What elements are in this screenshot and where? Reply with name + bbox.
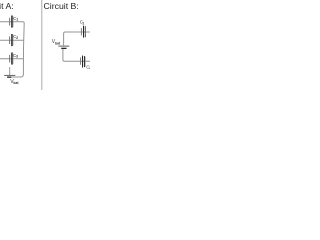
capacitor C1 thin plate: [9, 18, 11, 26]
wire top of Circuit B: left corner, top wire to right edge: [64, 32, 90, 45]
capacitor C2 thick plate: [11, 34, 13, 46]
battery V_bat short thick plate (Circuit A): [7, 77, 11, 78]
panel divider line: [41, 0, 43, 90]
wire branch 2 (middle, Circuit A): [0, 39, 24, 41]
svg-text:1: 1: [82, 21, 84, 25]
capacitor C2 thick plate (Circuit B): [82, 56, 83, 68]
svg-text:3: 3: [16, 55, 18, 59]
wire branch 3 (lower, Circuit A): [0, 58, 23, 60]
capacitor C2 thin plate: [9, 36, 11, 44]
wire battery top lead (Circuit A): [9, 67, 11, 75]
battery V_bat short thick plate (Circuit B): [61, 48, 66, 49]
wire bottom of Circuit B: lower left rail, bottom corner, bottom wire to right edge: [63, 49, 90, 61]
capacitor C3 thick plate: [11, 53, 13, 65]
capacitor C3 thin plate: [9, 55, 11, 63]
battery V_bat long plate (Circuit A): [4, 74, 15, 76]
wire branch 1 with right rail of Circuit A and bottom corner: [0, 22, 24, 77]
svg-text:bat: bat: [55, 42, 61, 46]
svg-text:1: 1: [16, 18, 18, 22]
battery V_bat long plate (Circuit B): [58, 45, 69, 47]
svg-text:2: 2: [16, 36, 18, 40]
svg-text:Circuit A:: Circuit A:: [0, 1, 14, 11]
capacitor C1 thick plate: [11, 16, 13, 28]
svg-text:Circuit B:: Circuit B:: [44, 1, 79, 11]
capacitor C1 thick plate (Circuit B): [83, 26, 84, 38]
svg-text:2: 2: [89, 66, 90, 70]
capacitor C1 thin plate (Circuit B): [80, 28, 82, 35]
svg-text:bat: bat: [13, 81, 19, 85]
capacitor C2 thin plate (Circuit B): [80, 58, 82, 65]
